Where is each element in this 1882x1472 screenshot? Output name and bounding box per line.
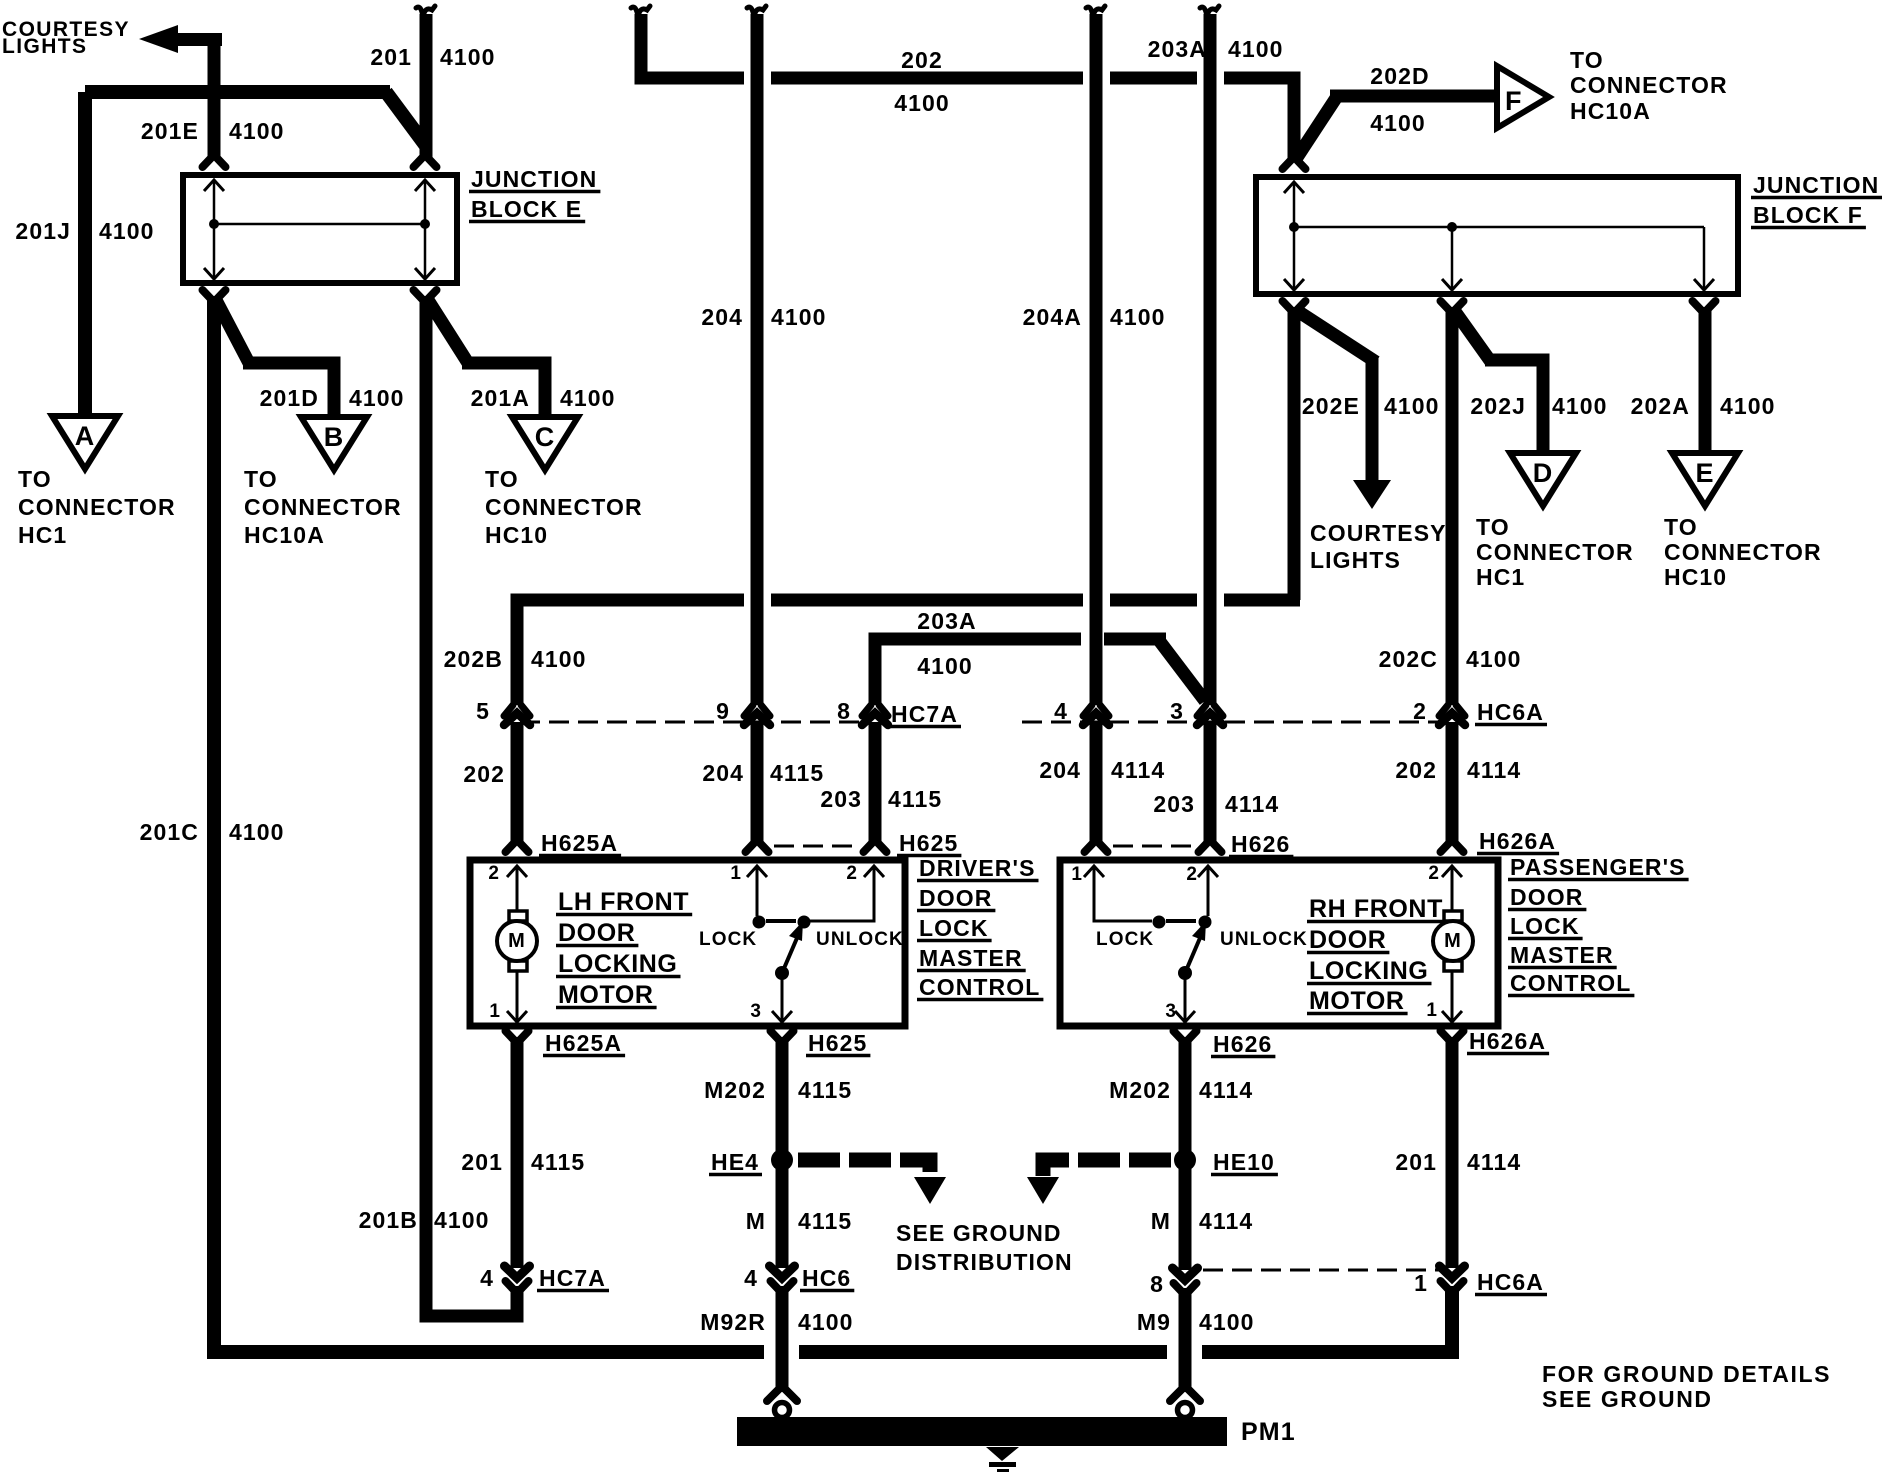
connector HC6 pin 4 <box>770 1266 795 1278</box>
junction block E internal bus <box>214 223 425 226</box>
svg-text:4100: 4100 <box>1384 393 1440 419</box>
wire 202 segment to H626A <box>1446 722 1459 844</box>
svg-text:202E: 202E <box>1302 393 1360 419</box>
chassis ground symbol <box>986 1447 1019 1461</box>
connector triangle E <box>1672 453 1738 506</box>
svg-text:4114: 4114 <box>1467 1149 1521 1175</box>
svg-text:4100: 4100 <box>531 646 587 672</box>
wire 202D horizontal to connector F <box>1330 90 1497 103</box>
svg-text:CONTROL: CONTROL <box>919 974 1040 1000</box>
svg-text:MASTER: MASTER <box>919 945 1023 971</box>
svg-text:LIGHTS: LIGHTS <box>1310 547 1401 573</box>
svg-text:UNLOCK: UNLOCK <box>1220 929 1308 950</box>
connector H626 below (pin 3) <box>1174 1031 1197 1041</box>
svg-text:B: B <box>324 422 345 452</box>
motor M2 symbol <box>1444 911 1462 921</box>
wire elbow from HC6A pin 1 to bottom bus <box>1202 1286 1452 1352</box>
svg-text:4100: 4100 <box>349 385 405 411</box>
svg-text:A: A <box>75 421 96 451</box>
svg-text:DOOR: DOOR <box>558 919 635 947</box>
connector HC6A pin 4 <box>1083 705 1109 716</box>
wire M/4115 from HE4 to HC6 <box>776 1160 789 1268</box>
svg-text:3: 3 <box>750 1001 762 1022</box>
svg-text:201: 201 <box>1395 1149 1437 1175</box>
wire M92R/4100 below HC6 <box>776 1286 789 1392</box>
svg-text:LOCKING: LOCKING <box>558 950 677 978</box>
wire 202E vertical courtesy lights arrow <box>1366 356 1379 482</box>
connector triangle C <box>512 417 578 470</box>
svg-text:4114: 4114 <box>1199 1077 1253 1103</box>
connector H625 pin 1 <box>746 842 769 852</box>
svg-text:HC10: HC10 <box>1664 564 1727 590</box>
svg-text:4114: 4114 <box>1467 757 1521 783</box>
svg-text:HC1: HC1 <box>18 522 67 548</box>
svg-text:UNLOCK: UNLOCK <box>816 929 904 950</box>
wire 202 segment to H625A <box>511 722 524 844</box>
svg-text:M: M <box>1151 1208 1171 1234</box>
svg-text:4115: 4115 <box>531 1149 585 1175</box>
switch S1 contact dash <box>766 919 796 923</box>
svg-text:BLOCK F: BLOCK F <box>1753 202 1863 228</box>
svg-text:201J: 201J <box>15 218 71 244</box>
svg-text:HC1: HC1 <box>1476 564 1525 590</box>
svg-text:TO: TO <box>1570 47 1604 73</box>
svg-text:CONTROL: CONTROL <box>1510 970 1631 996</box>
junction block F box <box>1256 177 1738 294</box>
connector HC6A pin 1 <box>1440 1266 1465 1278</box>
connector H626 pin 1 <box>1085 842 1108 852</box>
svg-text:JUNCTION: JUNCTION <box>1753 172 1879 198</box>
svg-text:4100: 4100 <box>440 44 496 70</box>
switch S1 pin 3 lead <box>781 973 784 1022</box>
connector triangle F <box>1497 66 1549 128</box>
switch S1 pin 1 lead <box>756 866 759 916</box>
svg-text:1: 1 <box>1071 864 1083 885</box>
ground arrow (left) <box>914 1177 946 1204</box>
connector H626 pin 2 <box>1199 842 1222 852</box>
switch S1 pin 2 lead <box>810 866 874 921</box>
svg-text:CONNECTOR: CONNECTOR <box>1664 539 1822 565</box>
switch S2 pin 1 lead <box>1094 866 1152 921</box>
svg-text:4100: 4100 <box>1228 36 1284 62</box>
svg-text:203: 203 <box>1153 791 1195 817</box>
svg-text:4100: 4100 <box>1370 110 1426 136</box>
svg-text:1: 1 <box>1426 1000 1438 1021</box>
svg-text:HE4: HE4 <box>711 1149 759 1175</box>
svg-text:H625: H625 <box>808 1030 867 1056</box>
svg-text:HC6A: HC6A <box>1477 1269 1544 1295</box>
svg-text:202C: 202C <box>1379 646 1438 672</box>
wire 202B horizontal <box>517 600 744 705</box>
svg-text:M: M <box>1444 930 1462 952</box>
svg-text:4100: 4100 <box>1199 1309 1255 1335</box>
junction block F node dots <box>1289 222 1299 232</box>
connector at block E top right port <box>414 157 437 167</box>
connector at block F top left port <box>1283 159 1306 169</box>
svg-text:1: 1 <box>489 1001 501 1022</box>
svg-text:M202: M202 <box>1109 1077 1171 1103</box>
svg-text:4: 4 <box>480 1265 494 1291</box>
svg-text:JUNCTION: JUNCTION <box>471 166 597 192</box>
svg-text:H626: H626 <box>1213 1031 1272 1057</box>
svg-text:202: 202 <box>1395 757 1437 783</box>
svg-text:DOOR: DOOR <box>919 885 992 911</box>
motor M2 pin 2 lead <box>1451 866 1454 911</box>
svg-text:202A: 202A <box>1631 393 1690 419</box>
svg-text:DOOR: DOOR <box>1309 926 1386 954</box>
connector row dashed line <box>520 721 860 724</box>
wire 202D branch diagonal <box>1294 98 1336 162</box>
svg-text:203A: 203A <box>917 608 976 634</box>
LH front door locking motor box <box>470 860 905 1026</box>
svg-text:DRIVER'S: DRIVER'S <box>919 855 1036 881</box>
switch S2 pivot dot <box>1178 966 1192 980</box>
switch S2 pin 3 lead <box>1184 973 1187 1022</box>
svg-text:F: F <box>1505 86 1523 116</box>
connector triangle A <box>52 416 118 469</box>
svg-text:HE10: HE10 <box>1213 1149 1275 1175</box>
svg-text:CONNECTOR: CONNECTOR <box>1476 539 1634 565</box>
ground bus bar PM1 <box>737 1417 1227 1446</box>
connector H625 pin 2 <box>864 842 887 852</box>
wire 203A diagonal to pin 3 <box>1158 639 1205 701</box>
switch S2 pin 2 lead <box>1207 866 1210 916</box>
svg-text:HC6A: HC6A <box>1477 699 1544 725</box>
wire 201J horizontal <box>85 85 390 99</box>
svg-text:4100: 4100 <box>229 819 285 845</box>
connector HC7A pin 5 <box>504 705 530 716</box>
svg-text:2: 2 <box>846 863 858 884</box>
svg-text:4114: 4114 <box>1225 791 1279 817</box>
connector row dashes H626 <box>1113 845 1193 848</box>
eyelet terminal right <box>1170 1389 1200 1401</box>
svg-text:HC6: HC6 <box>802 1265 851 1291</box>
junction block F internal left path <box>1293 184 1296 288</box>
svg-text:4100: 4100 <box>771 304 827 330</box>
svg-text:201B: 201B <box>359 1207 418 1233</box>
svg-text:202B: 202B <box>444 646 503 672</box>
switch S1 lock contact dot <box>753 916 766 929</box>
switch S1 pivot dot <box>775 966 789 980</box>
connector HC7A pin 9 <box>744 705 770 716</box>
svg-text:LOCK: LOCK <box>1096 929 1154 950</box>
connector HC6A pin 3 <box>1197 705 1223 716</box>
svg-text:4: 4 <box>1054 698 1068 724</box>
svg-text:DISTRIBUTION: DISTRIBUTION <box>896 1249 1073 1275</box>
svg-text:4: 4 <box>744 1265 758 1291</box>
svg-text:LH FRONT: LH FRONT <box>558 888 689 916</box>
svg-text:2: 2 <box>1428 863 1440 884</box>
wire 201E vertical into junction block E <box>208 35 221 159</box>
wire 201/4114 from H626A to HC6A <box>1446 1037 1459 1268</box>
svg-text:LIGHTS: LIGHTS <box>2 35 87 58</box>
junction block F internal middle path <box>1451 227 1454 288</box>
svg-text:RH FRONT: RH FRONT <box>1309 895 1443 923</box>
wire 202J branch diagonal <box>1454 310 1491 362</box>
svg-text:202: 202 <box>463 761 505 787</box>
svg-text:M: M <box>746 1208 766 1234</box>
wire 202E branch diagonal <box>1296 310 1376 362</box>
svg-text:4100: 4100 <box>1466 646 1522 672</box>
svg-text:202: 202 <box>901 47 943 73</box>
svg-text:LOCK: LOCK <box>1510 913 1580 939</box>
motor M1 symbol <box>509 911 527 921</box>
svg-text:4100: 4100 <box>229 118 285 144</box>
svg-text:SEE GROUND: SEE GROUND <box>1542 1386 1713 1412</box>
junction block E box <box>183 175 457 283</box>
svg-text:4100: 4100 <box>1720 393 1776 419</box>
motor M1 pin 1 lead <box>516 971 519 1022</box>
svg-text:HC10A: HC10A <box>244 522 325 548</box>
connector row dashes H625 <box>774 845 858 848</box>
svg-text:HC10: HC10 <box>485 522 548 548</box>
svg-text:TO: TO <box>1476 514 1510 540</box>
svg-text:4100: 4100 <box>1110 304 1166 330</box>
svg-text:LOCK: LOCK <box>919 915 989 941</box>
svg-text:CONNECTOR: CONNECTOR <box>244 494 402 520</box>
svg-text:H626A: H626A <box>1479 828 1556 854</box>
svg-text:3: 3 <box>1165 1001 1177 1022</box>
svg-text:TO: TO <box>244 466 278 492</box>
svg-text:4114: 4114 <box>1199 1208 1253 1234</box>
ground arrow (right) <box>1027 1177 1059 1204</box>
svg-text:2: 2 <box>488 863 500 884</box>
svg-text:HC10A: HC10A <box>1570 98 1651 124</box>
switch S1 lever <box>782 938 797 973</box>
svg-text:201D: 201D <box>260 385 319 411</box>
connector at block F bottom left port <box>1283 301 1306 311</box>
svg-text:201C: 201C <box>140 819 199 845</box>
svg-text:202D: 202D <box>1370 63 1429 89</box>
svg-text:203: 203 <box>820 786 862 812</box>
wire 203 segment to H625 pin2 <box>869 722 882 844</box>
svg-text:4115: 4115 <box>770 760 824 786</box>
svg-text:4114: 4114 <box>1111 757 1165 783</box>
svg-text:4100: 4100 <box>560 385 616 411</box>
svg-text:8: 8 <box>1150 1271 1164 1297</box>
connector H625 below (pin 3) <box>771 1031 794 1041</box>
wire 201 vertical from top <box>416 6 435 17</box>
connector H625A below (motor pin 1) <box>506 1031 529 1041</box>
switch S2 lock contact dot <box>1153 916 1166 929</box>
svg-text:204: 204 <box>702 760 744 786</box>
connector HC6A pin 2 <box>1439 705 1465 716</box>
connector at block F bottom right port <box>1693 301 1716 311</box>
svg-text:M92R: M92R <box>700 1309 766 1335</box>
wire 202A vertical below block F right port <box>1699 307 1712 453</box>
connector at block E bottom right port <box>414 290 437 300</box>
svg-text:2: 2 <box>1413 698 1427 724</box>
wire 201 diagonal join <box>386 92 426 146</box>
wire 201C vertical (left) <box>214 296 764 1352</box>
svg-text:1: 1 <box>730 863 742 884</box>
eyelet terminal left <box>767 1389 797 1401</box>
connector H626A below (motor pin 1) <box>1441 1031 1464 1041</box>
svg-text:3: 3 <box>1170 698 1184 724</box>
svg-text:H625A: H625A <box>545 1030 622 1056</box>
splice HE10 dot <box>1174 1149 1196 1171</box>
courtesy lights arrow (top left) <box>139 25 178 53</box>
wire 202 vertical below block F left port <box>1288 307 1301 600</box>
svg-text:H625A: H625A <box>541 830 618 856</box>
wire 201B vertical (from block E right port) <box>420 296 433 1316</box>
connector row dashed (bottom) <box>1203 1269 1440 1272</box>
connector H626A (motor pin 2) <box>1441 842 1464 852</box>
wire 204 vertical from top <box>747 6 766 17</box>
svg-text:4100: 4100 <box>894 90 950 116</box>
wire 201/4115 from H625A to HC7A <box>511 1037 524 1268</box>
switch S2 contact dash <box>1166 919 1196 923</box>
svg-text:MOTOR: MOTOR <box>1309 987 1405 1015</box>
wire M202/4114 from H626 to HE10 <box>1179 1037 1192 1160</box>
wire 201J vertical to connector A <box>78 92 92 417</box>
svg-text:HC7A: HC7A <box>539 1265 606 1291</box>
wire 201A branch diagonal <box>428 300 468 363</box>
RH front door locking motor box <box>1060 860 1498 1026</box>
wire 204 segment to H625 pin1 <box>751 722 764 844</box>
ground reference dashed wire (left) <box>798 1160 930 1176</box>
wire 203 segment to H626 pin2 <box>1204 722 1217 844</box>
svg-text:HC7A: HC7A <box>891 701 958 727</box>
svg-text:LOCK: LOCK <box>699 929 757 950</box>
svg-text:4100: 4100 <box>434 1207 490 1233</box>
svg-text:LOCKING: LOCKING <box>1309 957 1428 985</box>
svg-text:E: E <box>1695 458 1714 488</box>
svg-text:DOOR: DOOR <box>1510 884 1583 910</box>
switch S2 lever <box>1185 938 1200 973</box>
connector H625A (motor pin 2) <box>506 842 529 852</box>
connector at block F bottom middle port <box>1441 301 1464 311</box>
wire 204A vertical from top <box>1086 6 1105 17</box>
svg-text:COURTESY: COURTESY <box>1310 520 1447 546</box>
motor M2 pin 1 lead <box>1451 971 1454 1022</box>
svg-text:TO: TO <box>18 466 52 492</box>
svg-text:TO: TO <box>1664 514 1698 540</box>
connector HC6A pin 8 <box>1173 1268 1198 1280</box>
svg-text:203A: 203A <box>1148 36 1207 62</box>
wire stub with hook at x641 <box>631 6 650 17</box>
wire 201A branch elbow to connector C <box>462 363 545 417</box>
junction block E node dots <box>209 219 219 229</box>
connector triangle B <box>301 417 367 470</box>
connector at block E bottom left port <box>203 290 226 300</box>
ground reference dashed wire (right) <box>1043 1160 1172 1176</box>
svg-text:D: D <box>1533 458 1554 488</box>
svg-text:201: 201 <box>370 44 412 70</box>
wire 203A vertical from top <box>1200 6 1219 17</box>
svg-text:4115: 4115 <box>798 1208 852 1234</box>
svg-text:204: 204 <box>1039 757 1081 783</box>
junction block F internal bus <box>1294 226 1704 229</box>
wire M9/4100 below pin 8 <box>1179 1288 1192 1392</box>
wire M/4114 from HE10 to pin 8 <box>1179 1160 1192 1270</box>
wire 203A horizontal mid <box>875 639 1081 705</box>
svg-text:FOR GROUND DETAILS: FOR GROUND DETAILS <box>1542 1361 1831 1387</box>
svg-text:SEE GROUND: SEE GROUND <box>896 1220 1062 1246</box>
svg-text:BLOCK E: BLOCK E <box>471 196 582 222</box>
svg-text:9: 9 <box>716 698 730 724</box>
svg-text:MOTOR: MOTOR <box>558 981 654 1009</box>
wire 4100 bottom bus horizontal <box>799 1345 1167 1359</box>
wire 201B elbow to HC7A pin 4 <box>426 1286 517 1316</box>
wire 204 segment to H626 pin1 <box>1090 722 1103 844</box>
svg-text:4100: 4100 <box>798 1309 854 1335</box>
connector triangle D <box>1510 453 1576 506</box>
connector HC7A pin 4 (bottom) <box>505 1266 530 1278</box>
svg-text:5: 5 <box>476 698 490 724</box>
svg-text:4100: 4100 <box>1552 393 1608 419</box>
wire 202 horizontal top <box>645 72 744 85</box>
svg-text:201: 201 <box>461 1149 503 1175</box>
svg-text:C: C <box>535 422 556 452</box>
wire 202C vertical below block F middle port <box>1446 307 1459 705</box>
svg-text:M202: M202 <box>704 1077 766 1103</box>
junction block E internal right path <box>424 182 427 277</box>
wire 202J branch elbow to connector D <box>1485 360 1543 453</box>
svg-text:4115: 4115 <box>888 786 942 812</box>
svg-text:4115: 4115 <box>798 1077 852 1103</box>
junction block E internal left path <box>213 182 216 277</box>
svg-text:202J: 202J <box>1470 393 1526 419</box>
svg-text:H625: H625 <box>899 830 958 856</box>
svg-text:M9: M9 <box>1137 1309 1171 1335</box>
connector HC7A pin 8 <box>862 705 888 716</box>
svg-text:8: 8 <box>837 698 851 724</box>
wire 201D branch diagonal <box>216 300 249 363</box>
wire M202/4115 from H625 to HE4 <box>776 1037 789 1160</box>
svg-text:M: M <box>508 930 526 952</box>
svg-text:MASTER: MASTER <box>1510 942 1614 968</box>
splice HE4 dot <box>771 1149 793 1171</box>
junction block F internal right path <box>1703 227 1706 288</box>
svg-text:204A: 204A <box>1023 304 1082 330</box>
svg-text:4100: 4100 <box>99 218 155 244</box>
switch S1 unlock contact dot <box>798 916 811 929</box>
svg-text:204: 204 <box>701 304 743 330</box>
svg-text:201A: 201A <box>471 385 530 411</box>
svg-text:1: 1 <box>1414 1270 1428 1296</box>
svg-text:201E: 201E <box>141 118 199 144</box>
svg-text:TO: TO <box>485 466 519 492</box>
svg-text:PASSENGER'S: PASSENGER'S <box>1510 854 1686 880</box>
wire 201D branch elbow to connector B <box>243 363 334 417</box>
svg-text:CONNECTOR: CONNECTOR <box>485 494 643 520</box>
svg-text:PM1: PM1 <box>1241 1418 1296 1446</box>
motor M1 pin 2 lead <box>516 866 519 911</box>
connector at block E top left port <box>203 157 226 167</box>
svg-text:4100: 4100 <box>917 653 973 679</box>
switch S2 unlock contact dot <box>1199 916 1212 929</box>
svg-text:H626: H626 <box>1231 831 1290 857</box>
svg-text:H626A: H626A <box>1469 1028 1546 1054</box>
svg-text:2: 2 <box>1186 864 1198 885</box>
svg-text:CONNECTOR: CONNECTOR <box>18 494 176 520</box>
svg-text:CONNECTOR: CONNECTOR <box>1570 72 1728 98</box>
